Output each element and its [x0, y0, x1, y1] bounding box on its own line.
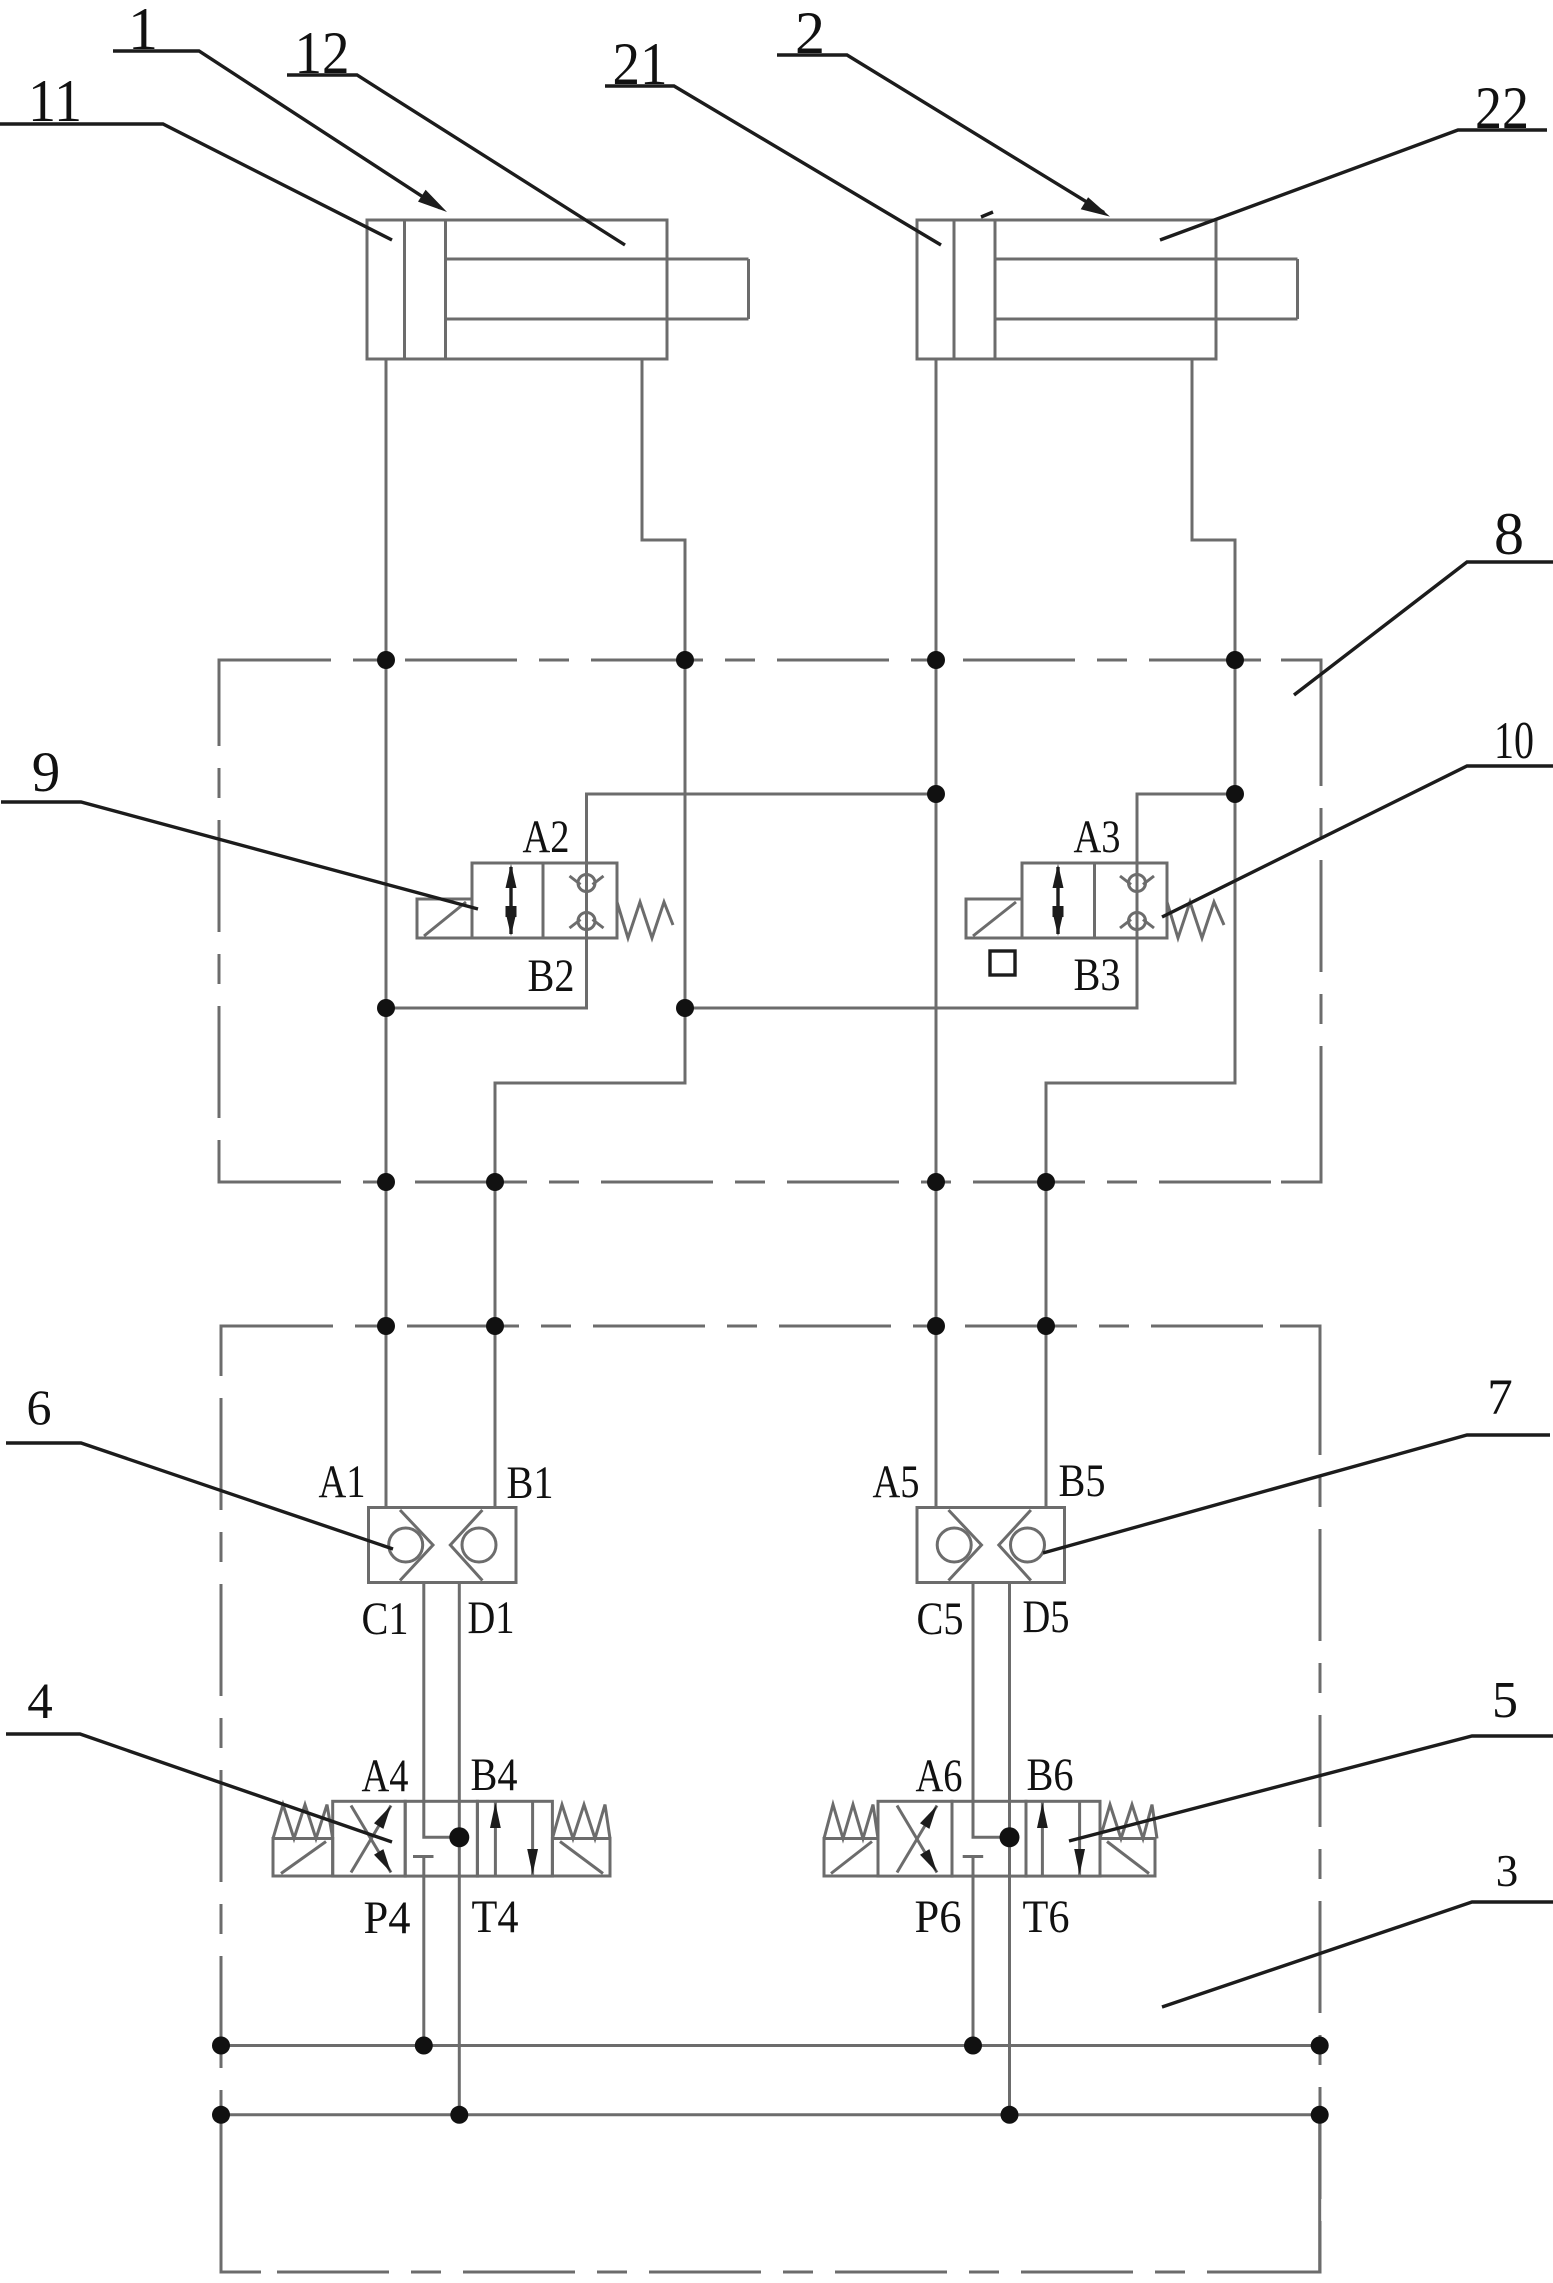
- reference label 21 with leader to cylinder 2 barrel: [605, 31, 941, 245]
- junction nodes on pressure rail (y=2045.5): [212, 2037, 1329, 2055]
- port label A4: [362, 1750, 409, 1802]
- port label A5: [873, 1456, 920, 1508]
- svg-text:4: 4: [27, 1674, 53, 1730]
- stray tick mark on cylinder 2 top edge: [981, 212, 993, 217]
- valve 4 (4/3 solenoid directional valve A4 B4 P4 T4): [273, 1801, 610, 1876]
- reference label 4 with leader to valve 4: [6, 1674, 392, 1842]
- reference label 5 with leader to valve 5: [1069, 1672, 1553, 1841]
- box 8 corner segments: [219, 660, 1321, 1182]
- svg-text:A6: A6: [916, 1750, 963, 1802]
- junction nodes on tank rail (y=2114.8): [212, 2106, 1329, 2124]
- cylinder 2 (right hydraulic cylinder, barrel 21, piston 22): [917, 220, 1298, 359]
- check valve block 7 (dual check valves A5 B5 / C5 D5): [917, 1508, 1065, 1583]
- svg-text:D5: D5: [1023, 1591, 1070, 1643]
- svg-text:B6: B6: [1027, 1749, 1074, 1801]
- port label P6: [915, 1891, 962, 1943]
- cylinder 1 (left hydraulic cylinder, barrel 11, piston 12): [367, 220, 749, 359]
- reference label 2 with leader arrow to cylinder 2: [777, 0, 1110, 217]
- port label A2: [523, 811, 570, 863]
- wire: left cylinder cap-end port with jogs down to B1: [495, 359, 685, 1508]
- port label B1: [507, 1457, 554, 1509]
- svg-text:C1: C1: [362, 1593, 409, 1645]
- wire: D5 / T6 line through valve 5 down to tank line: [1008, 1583, 1011, 2115]
- svg-text:3: 3: [1496, 1846, 1519, 1896]
- svg-text:B2: B2: [528, 950, 575, 1002]
- svg-text:10: 10: [1494, 712, 1534, 770]
- svg-text:C5: C5: [917, 1593, 964, 1645]
- junction nodes on box-8 top line (y=660): [377, 651, 1244, 669]
- port label P4: [364, 1892, 411, 1944]
- wire: C5 port down to valve 5: [972, 1583, 975, 1804]
- valve 10 (pilot-operated 2/2 solenoid valve A3/B3 with manual override square): [966, 863, 1224, 975]
- wire: P6 line from blocked stub down to pressure rail: [972, 1857, 975, 2046]
- port label T6: [1023, 1891, 1070, 1943]
- reference label 11 with leader to cylinder 1 left chamber: [0, 68, 392, 240]
- port label A6: [916, 1750, 963, 1802]
- check valve block 6 (dual check valves A1 B1 / C1 D1): [369, 1508, 517, 1583]
- valve 5 (4/3 solenoid directional valve A6 B6 P6 T6): [824, 1801, 1157, 1876]
- wire: C1 port down to valve 4: [422, 1583, 425, 1804]
- wire: valve B3 bottom port to node on x=685 (y=1008): [685, 938, 1137, 1008]
- wire: pressure rail P (y=2045.5): [221, 2044, 1320, 2047]
- svg-text:A2: A2: [523, 811, 570, 863]
- port label B3: [1074, 949, 1121, 1001]
- svg-text:P4: P4: [364, 1892, 411, 1944]
- valve 9 (pilot-operated 2/2 solenoid valve A2/B2): [417, 863, 673, 938]
- svg-text:T6: T6: [1023, 1891, 1070, 1943]
- wire: valve A2 top port to node on x=936 (y=794): [587, 794, 937, 863]
- reference label 12 with leader to cylinder 1 piston: [287, 20, 625, 245]
- manifold box 8 (dash-dot border): [219, 660, 1321, 1182]
- junction nodes on pilot lines (y=794): [927, 785, 1244, 803]
- svg-text:D1: D1: [468, 1592, 515, 1644]
- wire: left cylinder rod-end port down to A1 (node column x=386): [385, 359, 388, 1508]
- port label B6: [1027, 1749, 1074, 1801]
- reference label 3 with leader to box 3: [1162, 1846, 1553, 2007]
- reference label 22 with leader to cylinder 2 rod: [1160, 75, 1547, 240]
- svg-text:P6: P6: [915, 1891, 962, 1943]
- wire: right rail return (solid right edge segment): [1318, 2115, 1321, 2272]
- port label T4: [472, 1891, 519, 1943]
- junction nodes inside valves 4 and 5: [449, 1827, 1019, 1847]
- svg-text:8: 8: [1494, 501, 1524, 567]
- wire: valve B2 bottom port to node on x=386 (y=1008): [386, 938, 587, 1008]
- port label D1: [468, 1592, 515, 1644]
- port label D5: [1023, 1591, 1070, 1643]
- svg-text:B4: B4: [471, 1749, 518, 1801]
- junction nodes on box-8 bottom line (y=1182): [377, 1173, 1055, 1191]
- port label B2: [528, 950, 575, 1002]
- svg-text:A5: A5: [873, 1456, 920, 1508]
- box 3 corner segments: [221, 1326, 1320, 2272]
- wire: right cylinder cap-end port with jogs down to B5: [1046, 359, 1235, 1508]
- svg-text:B1: B1: [507, 1457, 554, 1509]
- reference label 9 with leader to valve 9: [1, 741, 478, 909]
- port label C1: [362, 1593, 409, 1645]
- junction nodes on box-3 top line (y=1326): [377, 1317, 1055, 1335]
- svg-text:A4: A4: [362, 1750, 409, 1802]
- svg-text:A3: A3: [1074, 811, 1121, 863]
- port label A3: [1074, 811, 1121, 863]
- wire: tank rail T (y=2114.8): [221, 2113, 1320, 2116]
- port label C5: [917, 1593, 964, 1645]
- svg-text:7: 7: [1487, 1370, 1513, 1426]
- port label B4: [471, 1749, 518, 1801]
- reference label 6 with leader to check block 6: [6, 1379, 393, 1549]
- wire: left rail return (solid left edge segment): [220, 2115, 223, 2272]
- reference label 8 with leader to box 8: [1294, 501, 1553, 695]
- wire: D1 / T4 line through valve 4 down to tank line: [458, 1583, 461, 2115]
- manifold box 3 (dash-dot border): [221, 1326, 1320, 2272]
- wire: valve A3 top port to node on x=1235 (y=794): [1137, 794, 1235, 863]
- svg-text:9: 9: [32, 741, 61, 804]
- svg-text:B3: B3: [1074, 949, 1121, 1001]
- svg-text:B5: B5: [1059, 1455, 1106, 1507]
- reference label 7 with leader to check block 7: [1043, 1370, 1550, 1553]
- wire: P4 line from blocked stub down to pressure rail: [422, 1857, 425, 2046]
- wire: right cylinder rod-end port down to A5 (x=936): [935, 359, 938, 1508]
- reference label 10 with leader to valve 10: [1162, 712, 1553, 917]
- port label A1: [319, 1456, 366, 1508]
- svg-text:6: 6: [27, 1379, 52, 1435]
- reference label 1 with leader arrow to cylinder 1: [113, 0, 447, 212]
- port label B5: [1059, 1455, 1106, 1507]
- svg-text:T4: T4: [472, 1891, 519, 1943]
- svg-text:5: 5: [1492, 1672, 1518, 1729]
- svg-text:A1: A1: [319, 1456, 366, 1508]
- junction nodes on B2/B3 lines (y=1008): [377, 999, 694, 1017]
